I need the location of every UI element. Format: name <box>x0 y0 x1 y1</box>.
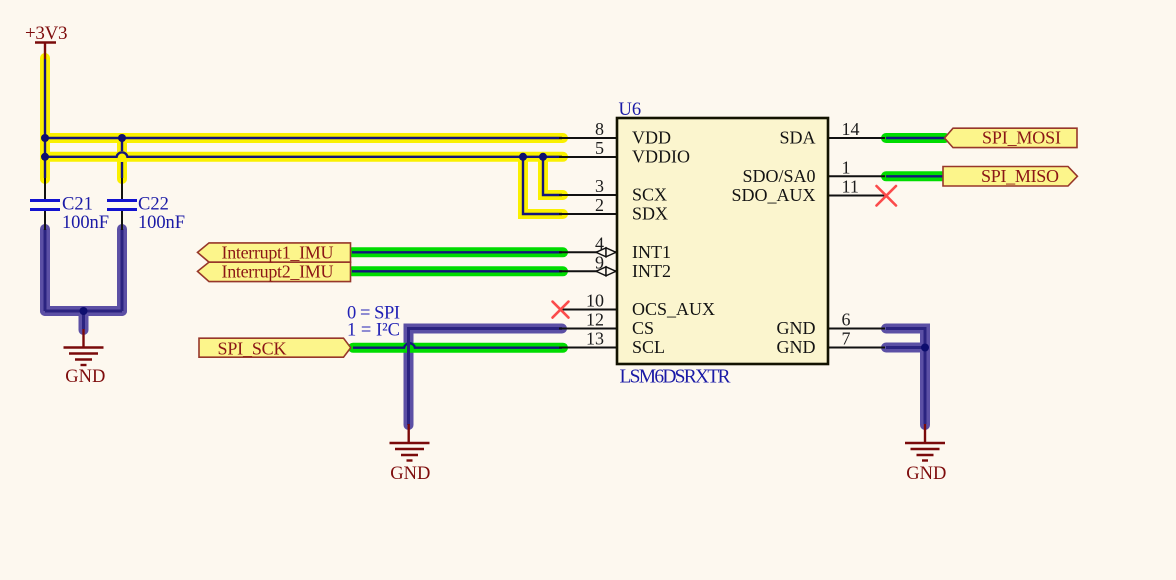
svg-text:SPI_SCK: SPI_SCK <box>218 338 287 358</box>
svg-text:7: 7 <box>842 329 851 349</box>
svg-text:SPI_MISO: SPI_MISO <box>981 166 1059 186</box>
svg-text:100nF: 100nF <box>138 213 185 233</box>
svg-text:12: 12 <box>586 310 604 330</box>
svg-text:4: 4 <box>595 233 604 253</box>
svg-text:6: 6 <box>842 310 851 330</box>
svg-text:9: 9 <box>595 252 604 272</box>
svg-text:14: 14 <box>842 119 860 139</box>
svg-text:OCS_AUX: OCS_AUX <box>632 299 715 319</box>
svg-text:5: 5 <box>595 138 604 158</box>
svg-text:GND: GND <box>65 367 105 387</box>
svg-text:SPI_MOSI: SPI_MOSI <box>982 128 1061 148</box>
svg-text:SDX: SDX <box>632 204 668 224</box>
svg-text:2: 2 <box>595 195 604 215</box>
svg-text:C22: C22 <box>138 195 169 215</box>
svg-text:3: 3 <box>595 176 604 196</box>
svg-text:SDO_AUX: SDO_AUX <box>731 185 815 205</box>
svg-text:+3V3: +3V3 <box>25 23 68 44</box>
svg-text:SDO/SA0: SDO/SA0 <box>742 166 815 186</box>
svg-text:1 = I²C: 1 = I²C <box>347 321 400 341</box>
svg-text:SDA: SDA <box>779 128 815 148</box>
svg-text:LSM6DSRXTR: LSM6DSRXTR <box>620 367 731 388</box>
svg-text:11: 11 <box>842 177 859 197</box>
svg-text:8: 8 <box>595 119 604 139</box>
svg-text:Interrupt1_IMU: Interrupt1_IMU <box>222 242 334 262</box>
svg-text:13: 13 <box>586 329 604 349</box>
svg-text:GND: GND <box>906 464 946 484</box>
svg-text:1: 1 <box>842 157 851 177</box>
svg-text:INT1: INT1 <box>632 242 671 262</box>
svg-text:GND: GND <box>390 464 430 484</box>
svg-text:GND: GND <box>777 337 816 357</box>
svg-text:100nF: 100nF <box>62 213 109 233</box>
svg-text:VDDIO: VDDIO <box>632 146 690 166</box>
svg-text:10: 10 <box>586 291 604 311</box>
svg-text:C21: C21 <box>62 195 93 215</box>
svg-text:SCX: SCX <box>632 185 667 205</box>
svg-text:GND: GND <box>777 318 816 338</box>
svg-text:Interrupt2_IMU: Interrupt2_IMU <box>222 262 334 282</box>
svg-text:INT2: INT2 <box>632 261 671 281</box>
svg-text:U6: U6 <box>619 100 642 120</box>
svg-text:SCL: SCL <box>632 337 665 357</box>
svg-text:CS: CS <box>632 318 654 338</box>
svg-text:VDD: VDD <box>632 128 671 148</box>
